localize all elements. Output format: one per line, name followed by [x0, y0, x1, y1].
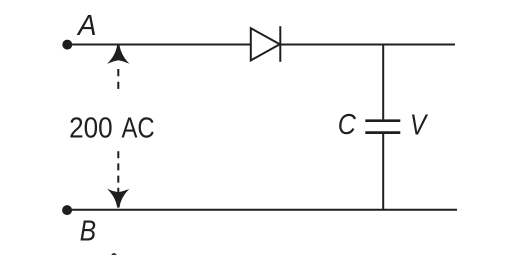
wire: bottom rail, dot B to right edge [67, 209, 457, 211]
wire: capacitor bottom stub to bottom rail [382, 134, 384, 211]
dashed measurement line, lower half [117, 151, 119, 193]
svg-text:B: B [80, 214, 96, 246]
svg-text:V: V [410, 109, 428, 141]
value label 200 AC [69, 111, 113, 144]
arrowhead up (to top rail) [107, 45, 130, 64]
label A (node A) [76, 9, 97, 42]
diode D1 triangle (anode) [251, 28, 280, 60]
wire: top rail, dot A to diode anode [67, 44, 251, 46]
svg-text:A: A [76, 9, 97, 42]
label V (voltage) [410, 109, 428, 141]
dashed measurement line, upper half [117, 69, 119, 89]
wire: top rail, diode cathode to right edge [280, 44, 455, 46]
svg-text:AC: AC [122, 111, 155, 144]
label C (capacitor) [338, 107, 357, 140]
arrowhead down (to bottom rail) [107, 189, 130, 208]
svg-text:C: C [338, 107, 357, 140]
terminal dot B [63, 206, 71, 214]
svg-text:200: 200 [69, 111, 113, 144]
capacitor C top plate [365, 119, 400, 122]
wire: capacitor top stub from top-rail junction [382, 45, 384, 120]
diode D1 cathode bar [279, 26, 281, 62]
label B (node B) [80, 214, 96, 246]
terminal dot A [63, 40, 71, 48]
cropped mark at bottom edge [111, 253, 117, 255]
capacitor C bottom plate [365, 131, 400, 134]
